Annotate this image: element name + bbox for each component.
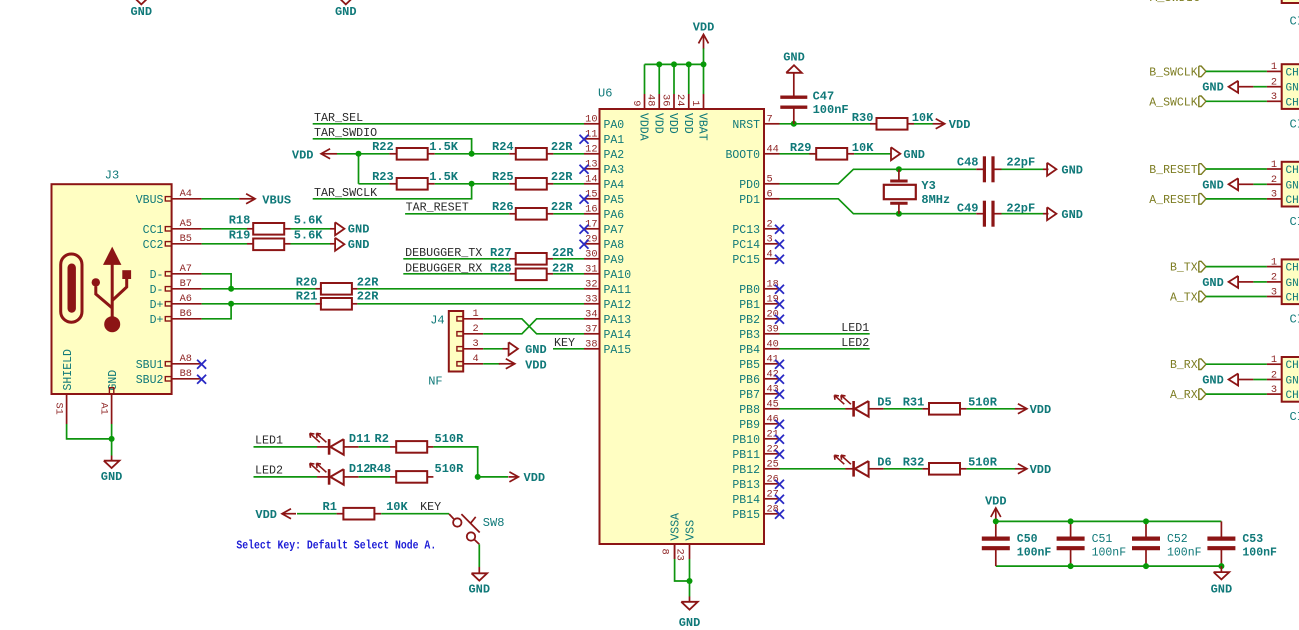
USB symbol oval (receptacle) bbox=[61, 254, 82, 322]
power VBUS bbox=[239, 198, 254, 200]
capacitor C47 bbox=[793, 107, 795, 123]
svg-text:34: 34 bbox=[585, 309, 597, 321]
svg-text:CI: CI bbox=[1290, 215, 1299, 229]
pin 2 (J4) bbox=[457, 332, 463, 336]
pin 3 PC14 (U6 right) bbox=[764, 243, 780, 245]
svg-text:A_TX: A_TX bbox=[1170, 292, 1198, 305]
resistor R20 bbox=[316, 288, 322, 290]
pin 33 PA12 (U6 left) bbox=[584, 303, 600, 305]
wire BOOT0 bbox=[780, 153, 816, 155]
svg-text:41: 41 bbox=[767, 354, 779, 366]
svg-text:PA9: PA9 bbox=[604, 254, 625, 267]
ground (CC1) bbox=[335, 222, 344, 235]
svg-text:D12: D12 bbox=[349, 462, 371, 476]
svg-text:PA13: PA13 bbox=[604, 314, 632, 327]
svg-text:16: 16 bbox=[585, 204, 597, 216]
ground (above C47, flipped) bbox=[786, 65, 802, 73]
svg-text:5.6K: 5.6K bbox=[294, 229, 324, 243]
svg-text:S1: S1 bbox=[53, 403, 65, 415]
svg-text:24: 24 bbox=[674, 94, 686, 106]
wire TAR_SEL to PA0 bbox=[313, 123, 584, 125]
svg-text:DEBUGGER_TX: DEBUGGER_TX bbox=[405, 246, 482, 260]
LED D12 bbox=[317, 476, 329, 478]
junction bbox=[469, 151, 475, 157]
no-connect PB14 bbox=[775, 495, 784, 504]
pin B7 D- (J3) bbox=[165, 287, 171, 291]
svg-text:CC2: CC2 bbox=[143, 239, 164, 252]
svg-text:PB1: PB1 bbox=[739, 299, 760, 312]
wire KEY to PA15 bbox=[553, 348, 584, 350]
no-connect PB6 bbox=[775, 375, 784, 384]
svg-text:J3: J3 bbox=[105, 169, 119, 183]
pin 7 NRST (U6 right) bbox=[764, 123, 780, 125]
pin A8 SBU1 (J3) bbox=[165, 362, 171, 366]
svg-text:1.5K: 1.5K bbox=[429, 170, 459, 184]
svg-text:PC13: PC13 bbox=[732, 224, 760, 237]
wire B_SWCLK bbox=[1206, 70, 1267, 72]
svg-text:Select Key: Default Select Nod: Select Key: Default Select Node A. bbox=[236, 539, 436, 553]
svg-text:10K: 10K bbox=[912, 111, 934, 125]
svg-text:510R: 510R bbox=[968, 395, 998, 409]
no-connect PA5 bbox=[580, 195, 589, 204]
svg-text:1: 1 bbox=[1271, 159, 1277, 171]
connector body (TX switch channel) bbox=[1282, 259, 1299, 304]
junction bbox=[896, 211, 902, 217]
connector J3 body bbox=[52, 184, 172, 394]
svg-text:NF: NF bbox=[428, 375, 442, 389]
svg-text:GND: GND bbox=[525, 343, 547, 357]
svg-text:B7: B7 bbox=[180, 278, 192, 290]
svg-text:PB8: PB8 bbox=[739, 404, 760, 417]
wire TAR_SWCLK bbox=[313, 184, 472, 199]
LED D6 bbox=[846, 468, 854, 470]
svg-text:LED2: LED2 bbox=[841, 336, 869, 350]
svg-text:2: 2 bbox=[1271, 174, 1277, 186]
junction bbox=[1143, 518, 1149, 524]
wire NRST bbox=[780, 123, 871, 125]
svg-text:1: 1 bbox=[1271, 61, 1277, 73]
svg-text:PB9: PB9 bbox=[739, 419, 760, 432]
wire R25 to PA4 bbox=[553, 183, 584, 185]
resistor R28 bbox=[509, 273, 515, 275]
svg-text:2: 2 bbox=[473, 323, 479, 335]
svg-text:30: 30 bbox=[585, 249, 597, 261]
pin 2 PC13 (U6 right) bbox=[764, 228, 780, 230]
svg-text:C53: C53 bbox=[1242, 533, 1263, 546]
pin 1 VBAT (U6 top) bbox=[703, 94, 705, 109]
svg-text:GND: GND bbox=[101, 470, 123, 484]
pin 3 bbox=[1267, 393, 1282, 395]
wire C48 to GND bbox=[1002, 168, 1044, 170]
pin 17 PA7 (U6 left) bbox=[584, 228, 600, 230]
svg-text:10: 10 bbox=[585, 114, 597, 126]
pin 43 PB7 (U6 right) bbox=[764, 393, 780, 395]
svg-text:PA15: PA15 bbox=[604, 344, 632, 357]
svg-text:VDD: VDD bbox=[255, 508, 277, 522]
svg-text:22R: 22R bbox=[551, 140, 573, 154]
pin 23 VSS (U6 bottom) bbox=[689, 544, 691, 559]
no-connect PB1 bbox=[775, 300, 784, 309]
svg-text:PB12: PB12 bbox=[732, 464, 760, 477]
svg-text:25: 25 bbox=[767, 459, 779, 471]
pin 28 PB15 (U6 right) bbox=[764, 513, 780, 515]
svg-text:CH: CH bbox=[1286, 195, 1299, 207]
svg-text:A_SWCLK: A_SWCLK bbox=[1149, 96, 1197, 109]
svg-text:VDD: VDD bbox=[681, 113, 694, 134]
wire (VDD rail drop) bbox=[688, 64, 690, 94]
svg-text:PB4: PB4 bbox=[739, 344, 760, 357]
junction bbox=[896, 166, 902, 172]
svg-text:TAR_SWDIO: TAR_SWDIO bbox=[314, 126, 377, 140]
connector body (top right, cut off) bbox=[1282, 0, 1299, 3]
pin 10 PA0 (U6 left) bbox=[584, 123, 600, 125]
pin 45 PB8 (U6 right) bbox=[764, 408, 780, 410]
resistor R21 bbox=[316, 303, 322, 305]
svg-text:CH: CH bbox=[1286, 67, 1299, 79]
resistor R23 bbox=[389, 183, 396, 185]
svg-text:PA8: PA8 bbox=[604, 239, 625, 252]
svg-text:GND: GND bbox=[468, 582, 490, 596]
no-connect PA1 bbox=[580, 135, 589, 144]
svg-text:PA3: PA3 bbox=[604, 164, 625, 177]
svg-text:D11: D11 bbox=[349, 432, 371, 446]
svg-text:R20: R20 bbox=[296, 275, 318, 289]
junction bbox=[469, 181, 475, 187]
pin 1 bbox=[1267, 168, 1282, 170]
crystal Y3 bbox=[898, 169, 900, 179]
svg-text:38: 38 bbox=[585, 339, 597, 351]
capacitor C52 bbox=[1145, 521, 1147, 538]
wire junction to VDD bbox=[478, 476, 508, 478]
svg-text:10K: 10K bbox=[386, 500, 408, 514]
pin 34 PA13 (U6 left) bbox=[584, 318, 600, 320]
svg-text:40: 40 bbox=[767, 339, 779, 351]
svg-text:CH: CH bbox=[1286, 263, 1299, 275]
svg-text:CI: CI bbox=[1290, 313, 1299, 327]
pin 3 bbox=[1267, 100, 1282, 102]
wire VDD down to R23 bbox=[358, 154, 360, 184]
svg-text:VDD: VDD bbox=[949, 118, 971, 132]
svg-text:VBUS: VBUS bbox=[136, 194, 164, 207]
svg-text:VDD: VDD bbox=[524, 471, 546, 485]
wire R32 to VDD bbox=[967, 468, 1015, 470]
svg-text:PB3: PB3 bbox=[739, 329, 760, 342]
svg-text:CH: CH bbox=[1286, 293, 1299, 305]
wire CC2 to R19 bbox=[202, 243, 247, 245]
ground (top left, cut off) bbox=[133, 0, 149, 4]
pin 29 PA8 (U6 left) bbox=[584, 243, 600, 245]
wire S1 to GND junction bbox=[67, 424, 112, 439]
svg-text:22R: 22R bbox=[357, 290, 379, 304]
power VDD (J4 pin4) bbox=[499, 363, 514, 365]
pin 14 PA4 (U6 left) bbox=[584, 183, 600, 185]
svg-text:GND: GND bbox=[348, 223, 370, 237]
pin B6 D+ (J3) bbox=[165, 317, 171, 321]
pin 36 VDD (U6 top) bbox=[673, 94, 675, 109]
svg-text:PA2: PA2 bbox=[604, 149, 625, 162]
svg-text:22R: 22R bbox=[552, 246, 574, 260]
svg-text:32: 32 bbox=[585, 279, 597, 291]
svg-text:D5: D5 bbox=[877, 395, 891, 409]
svg-text:C51: C51 bbox=[1092, 533, 1113, 546]
svg-text:GND: GND bbox=[335, 5, 357, 19]
svg-text:2: 2 bbox=[1271, 77, 1277, 89]
power VDD (LED circuit) bbox=[508, 476, 517, 478]
svg-text:6: 6 bbox=[767, 189, 773, 201]
pin A4 VBUS (J3) bbox=[165, 197, 171, 201]
svg-text:Y3: Y3 bbox=[921, 179, 935, 193]
svg-text:510R: 510R bbox=[435, 462, 465, 476]
wire B_RESET bbox=[1206, 168, 1267, 170]
pin 3 bbox=[1267, 296, 1282, 298]
svg-text:R29: R29 bbox=[790, 141, 812, 155]
wire J4-3 to GND bbox=[483, 348, 502, 350]
svg-text:A8: A8 bbox=[180, 353, 192, 365]
wire A_RESET bbox=[1206, 198, 1267, 200]
connector body (RX switch channel) bbox=[1282, 357, 1299, 402]
pin 16 PA6 (U6 left) bbox=[584, 213, 600, 215]
pin 15 PA5 (U6 left) bbox=[584, 198, 600, 200]
wire R2 to LED2 junction bbox=[433, 447, 477, 477]
svg-text:3: 3 bbox=[767, 234, 773, 246]
junction bbox=[1218, 563, 1224, 569]
svg-text:R31: R31 bbox=[903, 395, 925, 409]
svg-text:R27: R27 bbox=[490, 246, 512, 260]
USB symbol trident bbox=[96, 263, 127, 317]
svg-text:A1: A1 bbox=[98, 403, 110, 415]
wire LED2 net bbox=[254, 476, 318, 478]
svg-text:PB0: PB0 bbox=[739, 284, 760, 297]
no-connect SBU1 bbox=[197, 360, 206, 369]
svg-text:31: 31 bbox=[585, 264, 597, 276]
resistor R2 bbox=[359, 446, 390, 448]
connector J4 body bbox=[449, 311, 463, 372]
junction bbox=[1143, 563, 1149, 569]
junction bbox=[356, 151, 362, 157]
svg-text:LED2: LED2 bbox=[255, 464, 283, 478]
svg-text:GN: GN bbox=[1286, 376, 1299, 388]
svg-text:4: 4 bbox=[473, 353, 479, 365]
svg-text:C47: C47 bbox=[813, 89, 835, 103]
wire A_SWCLK bbox=[1206, 100, 1267, 102]
wire R30 to VDD bbox=[914, 123, 933, 125]
svg-text:KEY: KEY bbox=[420, 500, 441, 514]
no-connect PB13 bbox=[775, 480, 784, 489]
wire D+ B6 joins A6 bbox=[202, 304, 232, 319]
resistor R48 bbox=[359, 476, 390, 478]
wire B_TX bbox=[1206, 266, 1267, 268]
svg-text:PC15: PC15 bbox=[732, 254, 760, 267]
wire VBUS bbox=[202, 198, 239, 200]
svg-text:PA10: PA10 bbox=[604, 269, 632, 282]
ground (J4 pin3) bbox=[509, 342, 518, 355]
svg-text:22R: 22R bbox=[551, 170, 573, 184]
junction bbox=[656, 61, 662, 67]
wire GND flag bbox=[1253, 379, 1267, 381]
svg-text:3: 3 bbox=[1271, 286, 1277, 298]
svg-text:GND: GND bbox=[903, 148, 925, 162]
svg-text:21: 21 bbox=[767, 429, 779, 441]
pin 22 PB11 (U6 right) bbox=[764, 453, 780, 455]
wire GND flag bbox=[1253, 183, 1267, 185]
svg-text:10K: 10K bbox=[852, 141, 874, 155]
wire TAR_SWDIO bbox=[313, 139, 472, 154]
svg-text:PA12: PA12 bbox=[604, 299, 632, 312]
pin 1 (J4) bbox=[457, 317, 463, 321]
ground (cap bank) bbox=[1220, 566, 1222, 572]
resistor R18 bbox=[247, 228, 253, 230]
wire PB to D5 bbox=[780, 408, 846, 410]
svg-text:100nF: 100nF bbox=[1242, 547, 1277, 560]
no-connect PA7 bbox=[580, 225, 589, 234]
ground (CC2) bbox=[335, 238, 344, 251]
no-connect PB5 bbox=[775, 360, 784, 369]
wire R29 to GND bbox=[854, 153, 891, 155]
MCU U6 body bbox=[600, 109, 765, 544]
wire PB to D6 bbox=[780, 468, 846, 470]
junction bbox=[228, 301, 234, 307]
wire R23 row bbox=[359, 183, 390, 185]
svg-text:GND: GND bbox=[1202, 276, 1224, 290]
resistor R1 bbox=[337, 513, 343, 515]
resistor R22 bbox=[389, 153, 396, 155]
svg-text:36: 36 bbox=[659, 94, 671, 106]
junction bbox=[671, 61, 677, 67]
wire A_RX bbox=[1206, 393, 1267, 395]
svg-text:3: 3 bbox=[1271, 189, 1277, 201]
svg-text:43: 43 bbox=[767, 384, 779, 396]
svg-text:R25: R25 bbox=[492, 170, 514, 184]
svg-text:46: 46 bbox=[767, 414, 779, 426]
svg-text:R18: R18 bbox=[229, 213, 251, 227]
svg-text:1: 1 bbox=[1271, 354, 1277, 366]
no-connect PB7 bbox=[775, 390, 784, 399]
pin 27 PB14 (U6 right) bbox=[764, 498, 780, 500]
svg-text:R1: R1 bbox=[323, 500, 337, 514]
svg-text:7: 7 bbox=[767, 114, 773, 126]
svg-text:VDD: VDD bbox=[666, 113, 679, 134]
LED D5 bbox=[846, 408, 854, 410]
power VDD (R32) bbox=[1015, 468, 1026, 470]
wire A1 to GND junction bbox=[111, 424, 113, 439]
svg-text:A_SWDIO: A_SWDIO bbox=[1150, 0, 1200, 5]
pin 9 VDDA (U6 top) bbox=[644, 94, 646, 109]
wire (VDD rail drop) bbox=[658, 64, 660, 94]
pin 20 PB2 (U6 right) bbox=[764, 318, 780, 320]
pin A5 CC1 (J3) bbox=[165, 227, 171, 231]
svg-text:PA0: PA0 bbox=[604, 119, 625, 132]
svg-text:27: 27 bbox=[767, 489, 779, 501]
wire R21 to PA12 bbox=[357, 303, 584, 305]
wire J4-1 crossover to PA14 bbox=[483, 319, 584, 334]
wire VDD rail (cap bank) bbox=[996, 520, 1222, 522]
svg-text:D-: D- bbox=[150, 284, 164, 297]
pin 3 (J4) bbox=[457, 347, 463, 351]
svg-text:R30: R30 bbox=[852, 111, 874, 125]
svg-text:VBAT: VBAT bbox=[696, 113, 709, 141]
wire DEBUGGER_RX bbox=[403, 273, 509, 275]
svg-text:PC14: PC14 bbox=[732, 239, 760, 252]
svg-text:8MHz: 8MHz bbox=[921, 193, 950, 207]
svg-text:2: 2 bbox=[767, 219, 773, 231]
svg-text:12: 12 bbox=[585, 144, 597, 156]
no-connect PB10 bbox=[775, 435, 784, 444]
svg-text:CH: CH bbox=[1286, 97, 1299, 109]
wire GND rail (cap bank) bbox=[996, 565, 1222, 567]
svg-text:100nF: 100nF bbox=[813, 103, 849, 117]
svg-text:C49: C49 bbox=[957, 201, 979, 215]
svg-text:A7: A7 bbox=[180, 263, 192, 275]
svg-text:CH: CH bbox=[1286, 360, 1299, 372]
svg-text:1.5K: 1.5K bbox=[429, 140, 459, 154]
pin 31 PA10 (U6 left) bbox=[584, 273, 600, 275]
svg-text:GND: GND bbox=[1202, 178, 1224, 192]
ground (below U6) bbox=[689, 581, 691, 597]
svg-text:R32: R32 bbox=[903, 455, 925, 469]
resistor R29 bbox=[809, 153, 815, 155]
svg-text:R2: R2 bbox=[375, 432, 389, 446]
svg-text:PA11: PA11 bbox=[604, 284, 632, 297]
svg-text:PB13: PB13 bbox=[732, 479, 760, 492]
svg-text:GND: GND bbox=[1202, 81, 1224, 95]
svg-text:15: 15 bbox=[585, 189, 597, 201]
pin 37 PA14 (U6 left) bbox=[584, 333, 600, 335]
wire VDD to R22 bbox=[337, 153, 389, 155]
svg-text:GND: GND bbox=[1202, 374, 1224, 388]
svg-text:DEBUGGER_RX: DEBUGGER_RX bbox=[405, 261, 482, 275]
ground (C48) bbox=[1047, 163, 1056, 176]
wire D+ A6 straight bbox=[202, 303, 316, 305]
junction bbox=[109, 436, 115, 442]
svg-text:R48: R48 bbox=[370, 462, 392, 476]
svg-text:B_TX: B_TX bbox=[1170, 262, 1198, 275]
svg-text:C52: C52 bbox=[1167, 533, 1188, 546]
capacitor C48 bbox=[976, 168, 983, 170]
svg-text:D+: D+ bbox=[150, 299, 164, 312]
svg-text:4: 4 bbox=[767, 249, 773, 261]
svg-text:2: 2 bbox=[1271, 369, 1277, 381]
wire D- B7 to R20 bbox=[202, 288, 316, 290]
no-connect PA3 bbox=[580, 165, 589, 174]
svg-text:A4: A4 bbox=[180, 188, 192, 200]
resistor R19 bbox=[247, 243, 253, 245]
svg-text:5: 5 bbox=[767, 174, 773, 186]
capacitor C49 bbox=[976, 213, 983, 215]
svg-text:28: 28 bbox=[767, 504, 779, 516]
connector body (SWCLK switch channel) bbox=[1282, 64, 1299, 109]
svg-text:22pF: 22pF bbox=[1006, 155, 1035, 169]
svg-text:NRST: NRST bbox=[732, 119, 760, 132]
svg-text:TAR_RESET: TAR_RESET bbox=[406, 200, 469, 214]
no-connect PB2 bbox=[775, 315, 784, 324]
wire R22 to junction bbox=[435, 153, 509, 155]
svg-text:14: 14 bbox=[585, 174, 597, 186]
svg-text:1: 1 bbox=[689, 100, 701, 106]
svg-text:33: 33 bbox=[585, 294, 597, 306]
svg-text:PA6: PA6 bbox=[604, 209, 625, 222]
svg-text:R22: R22 bbox=[372, 140, 394, 154]
resistor R30 bbox=[870, 123, 876, 125]
junction bbox=[1068, 563, 1074, 569]
svg-text:22R: 22R bbox=[357, 275, 379, 289]
wire J4-2 crossover to PA13 bbox=[483, 319, 584, 334]
svg-text:LED1: LED1 bbox=[255, 434, 283, 448]
svg-text:B8: B8 bbox=[180, 368, 192, 380]
svg-text:R28: R28 bbox=[490, 261, 512, 275]
ground (C49) bbox=[1047, 207, 1056, 220]
svg-text:100nF: 100nF bbox=[1092, 547, 1127, 560]
pin 12 PA2 (U6 left) bbox=[584, 153, 600, 155]
